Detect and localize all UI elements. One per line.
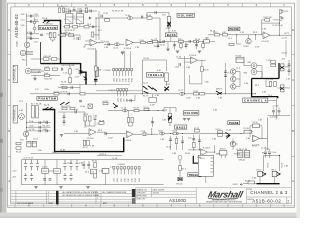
op-amp IC104:B: [201, 149, 208, 156]
PHANTOM label box: [38, 26, 57, 30]
wire mid rail main: [30, 93, 256, 95]
regulator REG1: [42, 168, 48, 173]
capacitor C137: [43, 179, 46, 180]
svg-text:2.2uF: 2.2uF: [272, 152, 278, 154]
resistor R147: [99, 122, 104, 124]
resistor R146: [94, 66, 97, 71]
centre info cells: [135, 188, 291, 204]
resistor R148 standing: [58, 8, 60, 12]
wire cap legs: [266, 149, 270, 158]
wire ch4 links: [262, 66, 281, 88]
op-amp IC102:A: [191, 57, 198, 64]
wire mid rail upper: [60, 83, 130, 85]
svg-text:CH3: CH3: [128, 179, 130, 182]
wire bass vertical 6: [196, 42, 198, 50]
regulator REG2: [54, 168, 60, 173]
connector CON104 small: [95, 67, 99, 76]
CHANNEL 3 side label box: [13, 106, 18, 123]
PHASE label box 2: [228, 121, 240, 125]
resistor R117: [200, 93, 205, 95]
svg-text:R1.35: R1.35: [204, 70, 209, 72]
svg-text:D: D: [8, 28, 10, 32]
svg-text:PHANTOM: PHANTOM: [40, 26, 58, 30]
resistor R138: [244, 130, 252, 133]
svg-text:C1.10: C1.10: [113, 48, 118, 50]
svg-text:RL101: RL101: [65, 12, 71, 14]
resistor R136: [218, 131, 223, 133]
ground psu 2: [59, 187, 62, 189]
svg-text:DRAWN J.B.: DRAWN J.B.: [136, 188, 147, 191]
film capacitor C170: [123, 109, 128, 112]
svg-text:TR1.1: TR1.1: [271, 170, 276, 172]
node junction M16: [214, 152, 215, 153]
wire output left lead: [243, 183, 257, 185]
svg-text:R109: R109: [95, 35, 100, 37]
capacitor C107: [69, 10, 70, 13]
volume pot wiper bold 2: [168, 116, 172, 121]
svg-text:D1.2: D1.2: [85, 172, 89, 174]
capacitor C123: [198, 140, 201, 141]
transistor TR102: [246, 39, 251, 44]
node junction H: [151, 134, 152, 135]
wire transistor links: [237, 35, 249, 44]
svg-text:C1.50: C1.50: [226, 130, 231, 132]
svg-text:C1.20: C1.20: [166, 147, 171, 149]
wire phase top column: [279, 9, 281, 35]
svg-text:C108: C108: [77, 9, 82, 11]
wire right caps column ch4: [288, 60, 290, 76]
PHANTOM label box 2: [37, 97, 57, 101]
pin 2: [120, 89, 122, 97]
wire upper jack row: [31, 58, 62, 60]
svg-text:C107: C107: [65, 9, 70, 11]
svg-text:R1.28: R1.28: [194, 128, 199, 130]
resistor R115: [201, 67, 204, 72]
wire volume top drop: [146, 13, 148, 19]
capacitor C105: [40, 34, 43, 35]
svg-text:C1.5: C1.5: [268, 95, 272, 97]
svg-text:IC103:B: IC103:B: [87, 138, 95, 140]
svg-text:R1.42: R1.42: [92, 161, 97, 163]
svg-text:R1.50: R1.50: [253, 122, 258, 124]
capacitor C114: [157, 45, 160, 46]
svg-text:RL2:A: RL2:A: [44, 103, 50, 106]
capacitor C158: [288, 64, 291, 65]
resistor box pair RB: [244, 151, 249, 158]
op-amp IC103:B: [89, 129, 96, 136]
relay contact RL101a: [43, 20, 51, 23]
pin 1: [113, 167, 115, 175]
capacitor C161: [101, 15, 102, 18]
svg-text:2: 2: [48, 198, 49, 200]
capacitor C146: [94, 118, 97, 119]
svg-text:R1.B C1.2 R1.B: R1.B C1.2 R1.B: [54, 91, 68, 93]
resistor R121 tall: [32, 105, 35, 118]
capacitor C126: [281, 11, 284, 12]
pin labels CON103: [114, 177, 141, 182]
svg-text:Marshall: Marshall: [207, 189, 244, 199]
resistor R130: [87, 140, 90, 145]
treble pot wiper bold: [164, 86, 169, 91]
wire branch 4: [27, 38, 40, 40]
wire mid column: [98, 11, 100, 40]
scan smudge 3: [0, 188, 3, 192]
svg-text:IC104:A: IC104:A: [124, 139, 132, 142]
resistor R176: [61, 34, 66, 36]
svg-text:CHECKED: CHECKED: [136, 192, 146, 194]
right scan edge: [297, 0, 301, 218]
resistor R172: [148, 41, 153, 43]
pin 3: [120, 167, 122, 175]
capacitor C166: [173, 45, 176, 46]
capacitor C122: [192, 139, 195, 140]
resistor R135: [179, 166, 182, 171]
svg-text:RL103: RL103: [236, 55, 242, 57]
resistor R167: [144, 108, 149, 110]
treble pot VR103: [165, 73, 168, 86]
relay RL101: [65, 12, 73, 24]
wire opamp3 out: [270, 34, 291, 36]
capacitor C164: [130, 99, 131, 102]
capacitor C148: [71, 86, 72, 89]
wire XLR pins: [26, 52, 33, 55]
capacitor C124: [203, 158, 206, 159]
polarity bold mark: [84, 77, 88, 80]
svg-text:C1.3: C1.3: [19, 101, 23, 103]
node junction K: [95, 84, 96, 85]
pin 7: [131, 68, 133, 76]
svg-text:USED ON: USED ON: [136, 199, 145, 201]
resistor R141: [265, 19, 270, 21]
svg-text:ALL TRANSISTORS/DIODES: ALL TRANSISTORS/DIODES: [103, 191, 128, 194]
svg-text:+15V: +15V: [12, 171, 17, 173]
relay RL102: [76, 12, 84, 24]
wire branch caps row3: [27, 130, 51, 132]
wire opamp out: [133, 42, 140, 44]
transistor TR108 cluster: [258, 171, 266, 176]
PHASE label box: [228, 27, 240, 31]
svg-text:CH4: CH4: [132, 179, 134, 182]
svg-text:C109: C109: [105, 42, 110, 44]
capacitor chain ch3: [63, 112, 65, 126]
trimmer VR106: [33, 18, 36, 34]
wire opamp2 output loop: [190, 60, 207, 84]
svg-text:1.2: 1.2: [64, 19, 67, 21]
resistor R113: [179, 40, 184, 42]
svg-text:C1.17: C1.17: [33, 139, 38, 141]
electrolytic C151: [69, 160, 72, 171]
svg-text:R110: R110: [140, 40, 144, 42]
svg-text:GRD: GRD: [50, 63, 55, 65]
svg-text:IC1.03:A: IC1.03:A: [270, 116, 278, 119]
resistor R144 box: [248, 181, 255, 184]
xlr out bold cluster: [225, 132, 230, 138]
svg-text:R4.6: R4.6: [44, 73, 48, 75]
resistor R143: [94, 173, 97, 178]
connector CON105 box: [102, 168, 109, 184]
node junction Q2: [158, 110, 159, 111]
svg-text:C4B C4B: C4B C4B: [43, 56, 52, 58]
resistor R163 vertical: [69, 78, 72, 83]
capacitor C108: [80, 10, 81, 13]
pin labels CON102: [117, 97, 128, 102]
resistor R165 on mid rail: [80, 93, 85, 95]
svg-text:DRG No: DRG No: [247, 199, 253, 201]
scan smudge 2: [0, 139, 3, 144]
wire to volume node: [146, 18, 165, 43]
ground volume 2: [183, 118, 186, 120]
resistor R159 standing: [85, 8, 87, 12]
wire resistor bottoms: [51, 38, 55, 42]
CHANNEL 4 label box: [243, 98, 268, 103]
bottom zone ticks: [15, 204, 271, 208]
svg-text:R1.3: R1.3: [182, 168, 186, 170]
svg-text:SW1: SW1: [128, 78, 130, 82]
wire box link: [152, 94, 154, 98]
capacitor C121: [181, 141, 184, 142]
resistor R175 vertical: [131, 118, 133, 123]
wire thick signal bus channel 2: [41, 20, 87, 84]
wire branch caps row1: [27, 122, 51, 124]
wire feedback loop 2: [250, 126, 262, 139]
TREBLE label box: [146, 73, 163, 78]
feedback resistor box R139: [253, 124, 260, 128]
svg-text:C1.4: C1.4: [236, 68, 240, 70]
svg-text:GRD1.B: GRD1.B: [99, 154, 107, 156]
svg-text:R1.26: R1.26: [83, 114, 88, 116]
svg-text:1.0n: 1.0n: [185, 44, 189, 46]
svg-text:C1.1B: C1.1B: [29, 129, 35, 131]
svg-text:IC101:A: IC101:A: [124, 47, 132, 50]
jack socket SK2: [251, 63, 257, 69]
svg-text:R1.27: R1.27: [83, 147, 88, 149]
electrolytic C150: [63, 173, 66, 181]
resistor R145: [62, 86, 67, 88]
footswitch socket box: [198, 155, 213, 176]
bright switch SW101 bold: [143, 86, 157, 94]
wire lower jack row: [31, 76, 60, 79]
svg-text:D: D: [292, 28, 294, 32]
node junction G: [279, 35, 280, 36]
resistor R173: [134, 109, 139, 111]
resistor R171: [202, 44, 204, 48]
volume pot VR4: [280, 85, 284, 92]
resistor box pair RA: [238, 151, 243, 158]
svg-text:S1.B3: S1.B3: [60, 150, 65, 152]
wire bass rail 2: [165, 133, 215, 135]
svg-text:R1.10 R1.11: R1.10 R1.11: [60, 33, 70, 35]
svg-text:1.1.8: 1.1.8: [63, 73, 67, 75]
capacitor C162 on mid rail: [68, 92, 69, 95]
capacitor C142: [39, 126, 40, 129]
svg-text:C1.4B C1.4B: C1.4B C1.4B: [236, 149, 248, 151]
wire ch4 out: [268, 98, 277, 119]
capacitor C116: [179, 63, 180, 66]
resistor R153: [274, 82, 277, 87]
wire output verticals: [260, 177, 275, 184]
bold contact ch3b: [113, 103, 118, 108]
svg-text:2: 2: [97, 198, 98, 200]
wire reg links: [45, 160, 57, 185]
node junction N1: [279, 155, 280, 156]
node junction M9: [176, 133, 177, 134]
svg-text:-16V: -16V: [123, 98, 125, 102]
svg-text:C: C: [8, 78, 10, 82]
svg-text:R103: R103: [45, 67, 50, 69]
svg-text:C126: C126: [284, 11, 289, 13]
electrolytic C132: [24, 160, 27, 171]
transistor TR107: [230, 141, 235, 146]
svg-text:R113: R113: [178, 39, 182, 41]
wire input bus 2: [26, 103, 28, 140]
transistor TR103: [231, 69, 236, 74]
wire vertical cap chain: [225, 63, 227, 94]
svg-text:R105 1M: R105 1M: [44, 79, 52, 81]
resistor R174 vertical: [127, 118, 129, 123]
relay RL105: [32, 141, 36, 147]
svg-text:4: 4: [48, 192, 49, 194]
CHANNEL 2 side label box: [13, 65, 18, 82]
bass network vertical 3: [182, 136, 184, 150]
svg-text:R125 R126: R125 R126: [61, 106, 71, 108]
capacitor C104: [31, 37, 32, 40]
svg-text:P.1.A: P.1.A: [29, 120, 34, 123]
svg-text:R1.2: R1.2: [31, 103, 35, 105]
svg-text:3: 3: [48, 195, 49, 197]
bass network vertical 2: [176, 136, 178, 150]
node junction I: [193, 149, 194, 150]
ground bass network: [166, 49, 169, 51]
wire tr links: [233, 139, 238, 150]
wire phase rail: [208, 34, 263, 36]
wire +rail: [22, 159, 164, 161]
node junction M13: [99, 26, 100, 27]
resistor R129: [83, 140, 86, 145]
pin 8: [138, 167, 140, 175]
bass pot VR102: [204, 38, 210, 44]
svg-text:R1.23: R1.23: [268, 163, 270, 168]
capacitor C118: [224, 71, 227, 72]
wire opamp5 out: [208, 145, 215, 152]
electrolytic C133: [24, 173, 27, 181]
capacitor C112: [163, 40, 164, 43]
resistor R116: [194, 93, 199, 95]
resistor R123: [16, 142, 21, 144]
svg-text:R1.17: R1.17: [143, 96, 148, 98]
relay RL103: [236, 57, 244, 62]
node junction M6: [255, 93, 256, 94]
wire output loop: [264, 155, 280, 171]
frame bottom double line: [8, 205, 295, 207]
svg-text:IC1.05: IC1.05: [42, 166, 48, 168]
capacitor C115: [185, 45, 188, 46]
capacitor C127: [281, 18, 284, 19]
wire opamp output: [97, 42, 104, 44]
svg-text:DATE 10/3/98: DATE 10/3/98: [153, 188, 165, 191]
wire relay top rail: [63, 10, 97, 12]
resistor R111: [147, 17, 152, 19]
svg-text:R1.2: R1.2: [98, 130, 102, 132]
resistor R152: [269, 82, 272, 87]
capacitor C163: [79, 101, 82, 102]
svg-text:R1.3: R1.3: [253, 32, 257, 34]
svg-text:+C1.3B: +C1.3B: [272, 106, 279, 108]
svg-text:SK3: SK3: [244, 73, 248, 75]
resistor R137: [218, 134, 223, 136]
capacitor C144: [46, 130, 47, 133]
svg-text:C119: C119: [158, 130, 162, 132]
feedback resistor R128: [88, 116, 91, 121]
svg-text:+R1.35: +R1.35: [281, 53, 287, 55]
svg-text:2: 2: [287, 199, 289, 203]
svg-text:R1.2B: R1.2B: [99, 121, 105, 123]
svg-text:IC101:B: IC101:B: [88, 48, 96, 50]
switch box X ch3: [88, 104, 92, 108]
node junction J: [199, 149, 200, 150]
node junction M15: [279, 23, 280, 24]
capacitor C102: [31, 20, 32, 23]
svg-text:R1.16: R1.16: [144, 58, 149, 60]
node junction A: [60, 20, 61, 21]
svg-text:R4.1 4.8: R4.1 4.8: [43, 125, 50, 127]
wire branch caps row2: [27, 126, 51, 128]
node junction D3: [203, 41, 204, 42]
svg-text:B: B: [8, 129, 10, 133]
wire opamp4 out: [133, 133, 141, 135]
wire input ground bus: [26, 14, 28, 67]
node junction P1: [241, 133, 242, 134]
resistor R131: [173, 132, 178, 134]
capacitor C143: [39, 130, 40, 133]
svg-text:R1.2B: R1.2B: [244, 128, 250, 130]
capacitor C169: [142, 16, 143, 19]
resistor R170: [180, 44, 182, 48]
wire right column: [285, 40, 287, 57]
pin 2: [116, 68, 118, 76]
svg-text:3: 3: [97, 195, 98, 197]
svg-text:C140: C140: [29, 125, 34, 127]
svg-text:DrgNo.: DrgNo.: [17, 40, 19, 47]
svg-text:C1.15: C1.15: [143, 83, 148, 85]
svg-text:R1.2B: R1.2B: [134, 107, 140, 109]
svg-text:C118: C118: [141, 131, 145, 133]
svg-text:C1B0: C1B0: [44, 89, 49, 91]
pin 5: [127, 167, 129, 175]
ground bass 2: [176, 51, 179, 53]
svg-text:C116: C116: [175, 67, 179, 69]
ground bass 3: [198, 51, 201, 53]
svg-text:C140: C140: [27, 37, 32, 39]
resistor R122 tall: [36, 105, 39, 118]
wire con104 feed: [96, 50, 98, 67]
wire link: [58, 112, 85, 128]
svg-text:C1.4B: C1.4B: [261, 147, 267, 149]
wire branch 3: [27, 33, 40, 35]
svg-text:R1.1: R1.1: [98, 30, 102, 32]
svg-text:VOLUME: VOLUME: [184, 111, 198, 115]
wire phase rail 2: [215, 133, 244, 135]
node junction M5: [225, 93, 226, 94]
revision table dark divider 2: [132, 189, 136, 197]
svg-text:C1.1: C1.1: [101, 41, 105, 43]
svg-text:GRD2: GRD2: [233, 184, 238, 186]
BASS label box 2: [175, 125, 187, 129]
node junction M4: [184, 93, 185, 94]
capacitor C155: [90, 10, 91, 13]
capacitor C130: [268, 152, 271, 153]
svg-text:R1.23: R1.23: [16, 152, 21, 154]
resistor R126: [70, 107, 75, 109]
